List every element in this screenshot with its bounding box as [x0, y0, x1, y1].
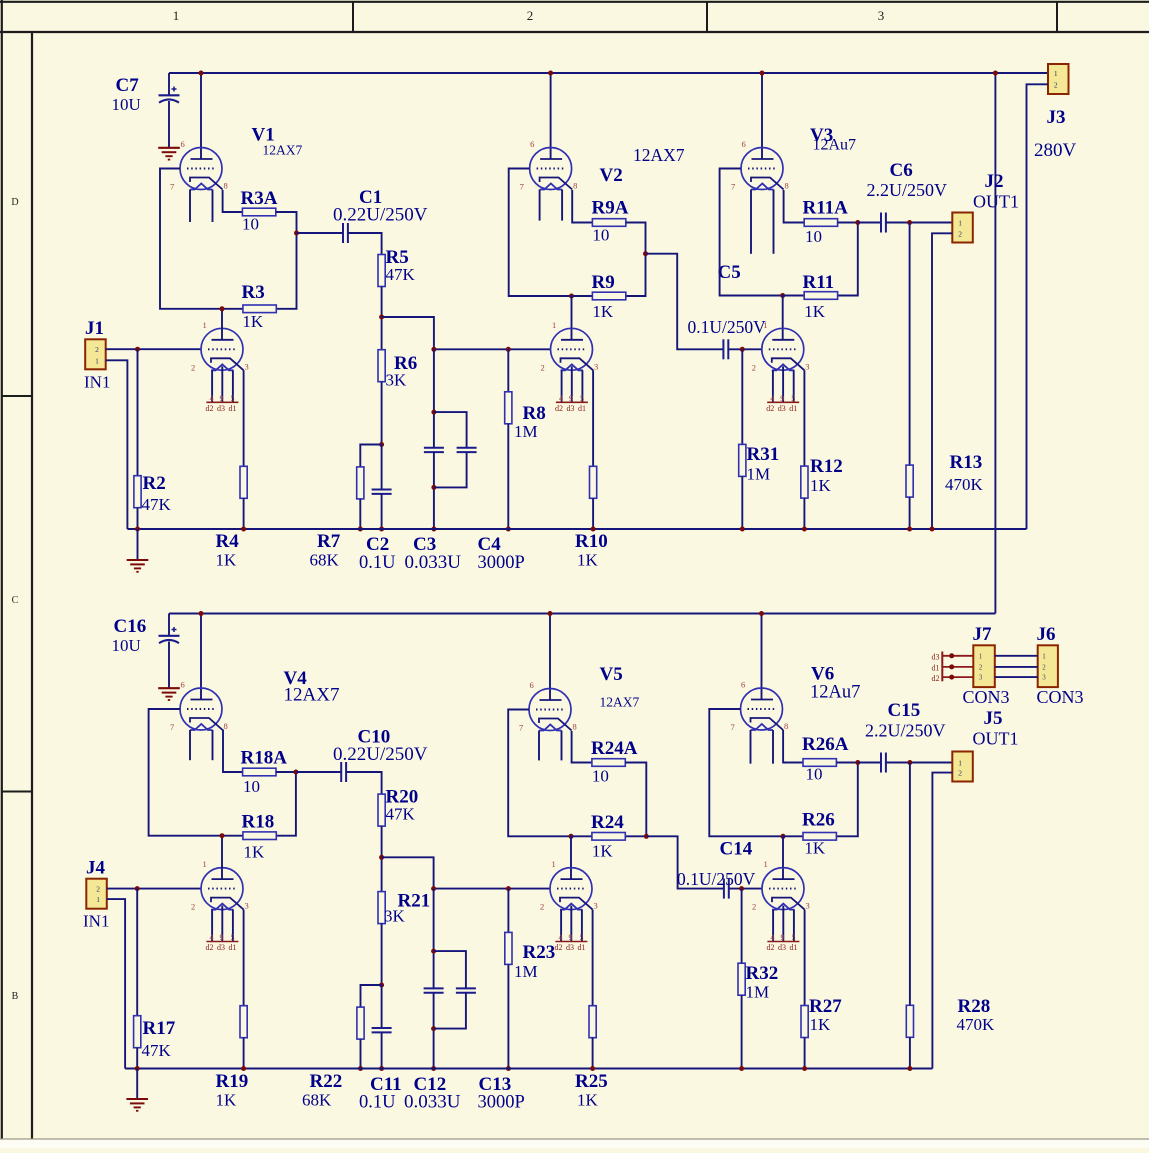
resistor R17 — [134, 1016, 141, 1048]
V4 second half heater pins 4 9 5 wires — [211, 910, 213, 942]
svg-text:C16: C16 — [114, 616, 147, 637]
wire junction to grid line drop — [382, 857, 434, 888]
svg-text:1K: 1K — [810, 476, 832, 495]
wire V3 cathode to R11A — [784, 190, 805, 223]
svg-text:2: 2 — [958, 769, 962, 778]
svg-text:J5: J5 — [984, 708, 1003, 729]
svg-text:3: 3 — [806, 901, 810, 911]
svg-text:1: 1 — [1042, 652, 1046, 660]
node C12/C13 top junction — [431, 949, 436, 954]
wire V5b cathode to R25 — [592, 910, 594, 1006]
wire R13 to ground bus — [909, 497, 911, 529]
V1 cathode (pin 8) — [190, 178, 223, 190]
resistor R10 — [590, 466, 597, 498]
svg-text:8: 8 — [224, 181, 228, 191]
svg-text:1: 1 — [1054, 69, 1058, 78]
wire V3 plate to bus — [761, 73, 763, 159]
svg-text:47K: 47K — [142, 1041, 172, 1060]
svg-text:3000P: 3000P — [478, 1093, 525, 1113]
V1 second half grid (pin 2) — [208, 348, 237, 350]
wire HT bus top (node 280V) — [169, 72, 1048, 74]
node R17/ground junction — [135, 1066, 140, 1071]
svg-text:R23: R23 — [523, 942, 556, 963]
svg-text:d3: d3 — [567, 404, 575, 413]
svg-text:R32: R32 — [746, 963, 779, 984]
V4 second half anode (pin 1) — [212, 878, 234, 880]
node grid-line junction (bottom) — [431, 886, 436, 891]
V3 second half heater filament — [772, 364, 795, 370]
svg-text:1K: 1K — [810, 1015, 832, 1034]
V4 second half heater filament — [211, 904, 234, 910]
svg-text:3: 3 — [245, 361, 249, 371]
resistor R32 — [738, 963, 745, 995]
wire R21 bottom — [381, 924, 383, 985]
zone tick 3-4 — [1056, 1, 1058, 32]
svg-text:IN1: IN1 — [83, 912, 109, 931]
wire V2b plate lead — [571, 296, 573, 340]
resistor R12 — [801, 466, 808, 498]
V1 grid (pin 7) — [187, 168, 216, 170]
svg-text:1K: 1K — [577, 551, 599, 570]
node J4/R17 junction — [135, 886, 140, 891]
V6 anode (pin 6) — [751, 699, 773, 701]
capacitor C3 with leads — [433, 349, 435, 447]
wire V5 grid loop — [508, 710, 571, 837]
svg-text:1: 1 — [95, 356, 99, 365]
svg-text:6: 6 — [741, 680, 745, 690]
V2 second half heater pins 4 9 5 wires — [561, 370, 563, 402]
svg-text:4: 4 — [210, 394, 214, 403]
svg-text:9: 9 — [569, 394, 573, 403]
wire R9A right to R9 right — [626, 223, 646, 297]
svg-text:7: 7 — [170, 182, 174, 192]
wire R17 with leads — [136, 889, 138, 1016]
svg-text:68K: 68K — [310, 551, 340, 570]
wire R10 to ground bus — [592, 498, 594, 529]
svg-text:1K: 1K — [592, 302, 614, 321]
svg-text:8: 8 — [785, 181, 789, 191]
V6 heater pin stubs — [750, 730, 752, 764]
svg-text:9: 9 — [220, 394, 224, 403]
svg-text:9: 9 — [569, 933, 573, 942]
wire R2 with leads — [137, 349, 139, 476]
svg-text:1: 1 — [764, 859, 768, 869]
svg-text:R31: R31 — [747, 444, 780, 465]
node R31 tap junction — [740, 347, 745, 352]
resistor R6 — [378, 350, 385, 382]
connector J6 body — [1038, 645, 1058, 687]
wire to ground symbol — [137, 529, 139, 560]
V1 anode (pin 6) — [191, 158, 213, 160]
wire V1b plate to R3 row — [221, 309, 223, 340]
V6 grid (pin 7) — [748, 708, 777, 710]
wire R19 to ground bus — [243, 1038, 245, 1069]
svg-text:R10: R10 — [575, 531, 608, 552]
svg-text:OUT1: OUT1 — [973, 192, 1019, 212]
V5 cathode (pin 8) — [539, 719, 572, 731]
V2 second half cathode (pin 3) — [561, 358, 594, 370]
wire V4b plate to R18 row — [221, 836, 223, 879]
svg-text:7: 7 — [170, 722, 174, 732]
svg-text:d3: d3 — [217, 404, 225, 413]
V6 second half grid (pin 2) — [769, 888, 798, 890]
wire junction to R22 — [361, 985, 382, 1007]
V3 second half cathode (pin 3) — [772, 358, 805, 370]
V3 second half heater pins 4 9 5 wires — [772, 370, 774, 402]
triode V1 second half (lower section) envelope — [201, 328, 243, 370]
V6 cathode (pin 8) — [751, 718, 784, 730]
svg-text:2.2U/250V: 2.2U/250V — [867, 180, 948, 200]
svg-text:d1: d1 — [790, 943, 798, 952]
connector J3 body — [1048, 64, 1069, 94]
resistor R19 — [240, 1006, 247, 1038]
svg-text:R11: R11 — [803, 272, 835, 293]
svg-text:1M: 1M — [746, 983, 770, 1002]
node J5/R28 junction — [907, 760, 912, 765]
V3 second half grid (pin 2) — [769, 348, 798, 350]
svg-text:7: 7 — [731, 182, 735, 192]
wire C15 to J5 — [886, 762, 952, 764]
V1 second half heater pin rail — [206, 401, 238, 403]
wire V5 plate to bus — [549, 614, 551, 701]
svg-text:7: 7 — [519, 723, 523, 733]
svg-text:0.033U: 0.033U — [404, 1092, 461, 1113]
svg-text:3: 3 — [245, 901, 249, 911]
svg-text:2: 2 — [95, 345, 99, 354]
node R5/R6 junction — [379, 315, 384, 320]
resistor R24 — [592, 833, 625, 841]
svg-text:8: 8 — [224, 721, 228, 731]
wire R26 left — [783, 835, 803, 837]
wire to C6 — [858, 222, 881, 224]
svg-text:5: 5 — [580, 933, 584, 942]
V2 heater filament — [540, 184, 563, 190]
svg-text:9: 9 — [781, 933, 785, 942]
svg-text:J3: J3 — [1047, 107, 1066, 128]
svg-text:2: 2 — [527, 8, 534, 23]
svg-text:C4: C4 — [478, 534, 502, 555]
svg-text:1: 1 — [979, 652, 983, 660]
svg-text:V5: V5 — [600, 664, 623, 685]
svg-text:R17: R17 — [143, 1018, 176, 1039]
capacitor C12 with leads — [433, 889, 435, 989]
node C14 tap junction — [644, 834, 649, 839]
svg-text:IN1: IN1 — [84, 373, 110, 392]
resistor R9A — [592, 219, 625, 227]
triode V2 (upper section) envelope — [530, 148, 572, 190]
svg-text:0.1U/250V: 0.1U/250V — [677, 869, 756, 889]
V6 second half heater filament — [772, 904, 795, 910]
wire J5 pin2 ground drop — [932, 773, 952, 1069]
connector J4 body — [86, 879, 107, 909]
svg-text:6: 6 — [742, 139, 746, 149]
connector J5 body — [952, 752, 973, 782]
wire to C15 — [858, 762, 881, 764]
wire R27 to ground bus — [804, 1038, 806, 1069]
page bottom margin strip — [0, 1140, 1149, 1149]
svg-text:12AX7: 12AX7 — [600, 695, 640, 710]
resistor R13 — [906, 465, 913, 497]
svg-text:R18: R18 — [242, 812, 275, 833]
svg-text:2: 2 — [1042, 663, 1046, 671]
svg-text:5: 5 — [231, 394, 235, 403]
V5 anode (pin 6) — [540, 699, 562, 701]
svg-text:C5: C5 — [718, 262, 741, 283]
svg-text:R9A: R9A — [592, 198, 629, 219]
svg-text:d2: d2 — [766, 404, 774, 413]
svg-text:5: 5 — [231, 933, 235, 942]
capacitor C5 — [722, 339, 724, 359]
resistor R11A — [804, 219, 837, 227]
resistor R27 — [801, 1006, 808, 1038]
wire V5b plate lead — [570, 836, 572, 879]
svg-text:C2: C2 — [366, 534, 389, 555]
svg-text:10U: 10U — [112, 636, 141, 655]
node R6/C2/R7 junction — [379, 442, 384, 447]
svg-text:d2: d2 — [932, 674, 940, 683]
svg-text:d3: d3 — [566, 943, 574, 952]
wire V5 cathode to R24A — [572, 731, 592, 763]
sheet inner frame horizontal line — [0, 31, 1149, 33]
V1 second half heater pins 4 9 5 wires — [211, 370, 213, 402]
wire R11 left — [783, 295, 805, 297]
svg-text:d1: d1 — [932, 664, 940, 673]
node C3/C4 top junction — [431, 410, 436, 415]
wire R6 bottom — [381, 382, 383, 445]
wire J1 pin2 to V1b grid — [106, 348, 201, 350]
svg-text:OUT1: OUT1 — [973, 729, 1019, 749]
resistor R8 with leads — [507, 349, 509, 392]
svg-text:4: 4 — [559, 394, 563, 403]
svg-text:R19: R19 — [216, 1071, 249, 1092]
svg-text:d3: d3 — [932, 653, 940, 662]
svg-text:C14: C14 — [720, 839, 753, 860]
V6 heater filament — [751, 724, 774, 730]
svg-text:V2: V2 — [600, 165, 623, 186]
svg-text:d2: d2 — [206, 943, 214, 952]
wire V2b cathode to R10 — [592, 370, 594, 466]
svg-text:R26A: R26A — [802, 734, 849, 755]
capacitor C11 — [381, 985, 383, 1028]
wire to ground symbol (bottom) — [136, 1069, 138, 1099]
svg-text:C: C — [12, 595, 19, 606]
wire C6 to J2 — [886, 222, 952, 224]
wire R4 to ground bus — [243, 498, 245, 529]
resistor R31 — [739, 444, 746, 476]
V5 second half heater pins 4 9 5 wires — [560, 910, 562, 942]
svg-text:6: 6 — [530, 680, 534, 690]
wire HT drop to lower channel — [994, 73, 996, 614]
svg-text:1: 1 — [763, 320, 767, 330]
resistor R18 — [243, 832, 276, 840]
resistor R26 — [803, 833, 836, 841]
svg-text:4: 4 — [770, 394, 774, 403]
svg-text:d1: d1 — [789, 404, 797, 413]
svg-text:C6: C6 — [890, 160, 913, 181]
svg-text:2: 2 — [958, 229, 962, 238]
V6 second half heater pins 4 9 5 wires — [772, 910, 774, 942]
connector J2 body — [952, 213, 973, 243]
V4 heater filament — [190, 724, 213, 730]
capacitor C1 — [342, 223, 344, 243]
svg-text:10: 10 — [243, 777, 260, 796]
svg-text:0.1U: 0.1U — [359, 553, 396, 573]
svg-text:0.033U: 0.033U — [405, 552, 462, 573]
ground (C16) — [158, 687, 180, 689]
svg-text:1: 1 — [173, 8, 180, 23]
svg-text:12Au7: 12Au7 — [813, 137, 857, 154]
svg-text:68K: 68K — [302, 1091, 332, 1110]
svg-text:10: 10 — [806, 765, 823, 784]
resistor R24A — [592, 759, 625, 767]
svg-text:4: 4 — [771, 933, 775, 942]
V4 cathode (pin 8) — [190, 718, 223, 730]
svg-text:R3A: R3A — [241, 188, 278, 209]
wire R9 left — [572, 295, 593, 297]
node grid-line left junction — [431, 347, 436, 352]
resistor R11 — [804, 292, 837, 300]
svg-text:9: 9 — [220, 933, 224, 942]
V1 heater filament — [190, 184, 213, 190]
triode V6 (upper section) envelope — [741, 688, 783, 730]
ground (top channel) — [127, 559, 149, 561]
node C5 tap junction — [643, 251, 648, 256]
wire C1 to R5 — [348, 233, 382, 255]
triode V5 (upper section) envelope — [529, 689, 571, 731]
V2 second half heater pin rail — [556, 401, 588, 403]
svg-text:5: 5 — [580, 394, 584, 403]
svg-text:1K: 1K — [804, 839, 826, 858]
svg-text:12Au7: 12Au7 — [810, 683, 860, 703]
wire R11A right to R11 right — [838, 223, 858, 296]
triode V4 second half (lower section) envelope — [201, 868, 243, 910]
svg-text:1: 1 — [552, 859, 556, 869]
node V5b plate junction — [569, 834, 574, 839]
V1 second half cathode (pin 3) — [211, 358, 244, 370]
svg-text:2: 2 — [191, 902, 195, 912]
svg-text:R28: R28 — [958, 996, 991, 1017]
resistor R3A — [242, 208, 275, 216]
svg-text:4: 4 — [559, 933, 563, 942]
svg-text:1K: 1K — [804, 302, 826, 321]
svg-text:0.1U: 0.1U — [359, 1093, 396, 1113]
wire J4 pin2 to V4b grid — [107, 888, 201, 890]
svg-text:3000P: 3000P — [478, 553, 525, 573]
svg-text:d2: d2 — [206, 404, 214, 413]
svg-text:12AX7: 12AX7 — [633, 145, 685, 165]
wire junction to C5 — [646, 254, 724, 350]
svg-text:d3: d3 — [778, 404, 786, 413]
svg-text:3: 3 — [594, 361, 598, 371]
svg-text:R8: R8 — [523, 403, 546, 424]
wire V1b cathode to R4 — [243, 370, 245, 466]
wire R24A right to R24 right — [625, 763, 646, 837]
svg-text:2: 2 — [979, 663, 983, 671]
svg-text:12AX7: 12AX7 — [263, 143, 303, 158]
node V2b plate junction — [569, 294, 574, 299]
triode V5 second half (lower section) envelope — [550, 868, 592, 910]
ground (C7) — [158, 147, 180, 149]
V2 cathode (pin 8) — [540, 178, 573, 190]
svg-text:J7: J7 — [973, 624, 993, 645]
node C10 junction — [293, 770, 298, 775]
wire J7 pin2 to J6 pin2 — [995, 666, 1038, 668]
resistor R22 — [357, 1007, 364, 1039]
svg-text:10: 10 — [805, 227, 822, 246]
V5 second half anode (pin 1) — [561, 878, 583, 880]
wire C14 to V6b grid — [729, 888, 762, 890]
svg-text:10: 10 — [592, 767, 609, 786]
svg-text:R13: R13 — [950, 452, 983, 473]
node R2/ground junction — [135, 527, 140, 532]
resistor R21 — [378, 892, 385, 924]
V3 cathode (pin 8) — [751, 178, 784, 190]
svg-text:1M: 1M — [514, 422, 538, 441]
V5 second half heater filament — [560, 904, 583, 910]
svg-text:d1: d1 — [578, 943, 586, 952]
wire V3b plate lead — [782, 296, 784, 340]
resistor R7 — [357, 467, 364, 499]
svg-text:R26: R26 — [802, 810, 835, 831]
V5 heater filament — [539, 725, 562, 731]
capacitor C7 — [168, 73, 170, 95]
V4 grid (pin 7) — [187, 708, 216, 710]
node J1/R2 junction — [135, 347, 140, 352]
capacitor C10 — [340, 762, 342, 782]
svg-text:10U: 10U — [112, 95, 141, 114]
resistor R3 — [243, 305, 276, 313]
V6 second half cathode (pin 3) — [772, 898, 805, 910]
V1 second half heater filament — [211, 364, 234, 370]
V2 second half anode (pin 1) — [561, 339, 583, 341]
ground bus (top channel) — [127, 528, 1026, 530]
wire junction to C14 — [646, 836, 724, 888]
svg-text:2: 2 — [1054, 80, 1058, 89]
capacitor C13 — [456, 987, 476, 989]
svg-text:3: 3 — [594, 901, 598, 911]
svg-text:d2: d2 — [555, 404, 563, 413]
wire V6 grid loop — [709, 709, 783, 836]
resistor R4 — [240, 466, 247, 498]
svg-text:2: 2 — [96, 885, 100, 894]
V4 second half cathode (pin 3) — [211, 898, 244, 910]
svg-text:3: 3 — [805, 361, 809, 371]
connector J7 body — [973, 645, 995, 687]
svg-text:0.22U/250V: 0.22U/250V — [333, 744, 428, 765]
wire R31 with leads — [741, 349, 743, 444]
V6 second half heater pin rail — [767, 941, 799, 943]
wire junction to R7 — [360, 445, 381, 467]
triode V6 second half (lower section) envelope — [762, 868, 804, 910]
wire V1 cathode to R3A — [223, 190, 243, 212]
wire R20 bottom to R21 — [381, 826, 383, 892]
node C3/C4 bottom junction — [431, 485, 436, 490]
grid line V5 (node) — [434, 888, 550, 890]
resistor R18A — [243, 768, 276, 776]
V3 second half anode (pin 1) — [772, 339, 794, 341]
wire V4 grid loop — [149, 709, 243, 836]
wire R24 left — [571, 835, 592, 837]
net stub bar — [941, 652, 943, 682]
svg-text:d2: d2 — [555, 943, 563, 952]
svg-text:1K: 1K — [244, 843, 266, 862]
svg-text:5: 5 — [791, 394, 795, 403]
wire V6b plate lead — [782, 836, 784, 879]
V5 second half cathode (pin 3) — [560, 898, 593, 910]
capacitor C4 branch wires — [434, 412, 467, 448]
V5 second half grid (pin 2) — [557, 888, 586, 890]
svg-text:7: 7 — [520, 182, 524, 192]
